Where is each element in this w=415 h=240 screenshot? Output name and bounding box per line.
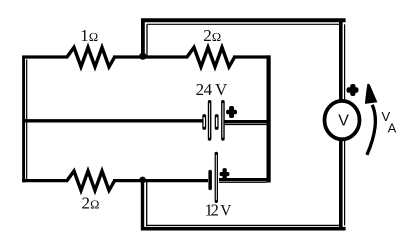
svg-text:2Ω: 2Ω [203,26,221,45]
wire: bottom rail (double horizontal) [141,225,346,228]
battery B2 12V plates [208,152,218,203]
voltmeter U1 [325,101,360,139]
svg-text:1Ω: 1Ω [80,26,98,45]
wire: bottom-left horizontal segment left of R3 [22,179,68,182]
resistor R3 2ohm (bottom) [67,171,115,190]
wire: 24V battery right lead (double) [224,122,270,125]
wire: 12V battery right lead (double) [219,180,270,183]
wire: top horizontal segment right of R2 [233,55,270,58]
wire: top horizontal segment left of R1 [22,55,68,58]
wire: top rail (double horizontal) [141,20,346,24]
resistor R2 2ohm (top) [187,47,235,66]
wire: right rail (double vertical) [341,19,345,231]
svg-text:V: V [338,112,349,129]
svg-text:A: A [388,121,397,136]
label polarity plus of B2 [220,168,230,180]
wire: bottom horizontal segment from R3 to 12V battery [113,179,208,182]
svg-text:2Ω: 2Ω [82,194,100,213]
wire: vertical drop from node B to bottom rail (double) [143,180,147,230]
battery B1 24V plates [202,100,224,141]
label polarity plus of B1 [226,106,237,118]
wire: left rail (double vertical) [24,56,27,182]
svg-text:12: 12 [205,200,219,219]
wire: mid-right vertical (connects top wire, 24V wire, 12V wire) [267,55,271,182]
arrow: VA reference direction (curved arrow) [365,84,378,155]
svg-text:V: V [220,202,232,219]
junction dot node A [139,53,146,60]
wire: top horizontal segment between R1 and R2 [113,55,188,58]
label polarity plus of voltmeter [347,84,359,96]
junction dot node B [139,177,146,184]
wire: 24V battery left lead [25,119,203,122]
wire: vertical drop from top rail to node A (double) [143,19,147,57]
resistor R1 1ohm [67,47,115,66]
svg-text:24 V: 24 V [196,80,228,99]
label V_A [382,109,397,136]
